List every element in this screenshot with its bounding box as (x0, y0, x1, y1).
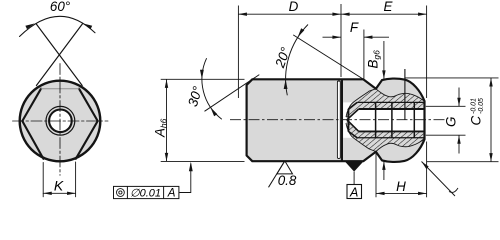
svg-text:D: D (289, 0, 299, 14)
svg-text:-0.01: -0.01 (470, 98, 477, 114)
svg-text:0.8: 0.8 (278, 173, 297, 188)
svg-text:A: A (167, 188, 176, 200)
svg-text:∅0.01: ∅0.01 (130, 188, 161, 200)
svg-text:K: K (54, 178, 64, 194)
svg-text:Bg6: Bg6 (366, 50, 382, 69)
svg-text:C: C (469, 116, 484, 126)
svg-text:F: F (350, 20, 359, 35)
svg-text:-0.05: -0.05 (478, 98, 485, 114)
svg-text:G: G (444, 117, 459, 127)
svg-text:20°: 20° (272, 45, 294, 71)
svg-text:Ah6: Ah6 (153, 118, 169, 138)
svg-text:60°: 60° (50, 0, 71, 14)
svg-text:H: H (396, 179, 406, 194)
svg-text:E: E (384, 0, 394, 14)
svg-text:A: A (349, 185, 358, 199)
